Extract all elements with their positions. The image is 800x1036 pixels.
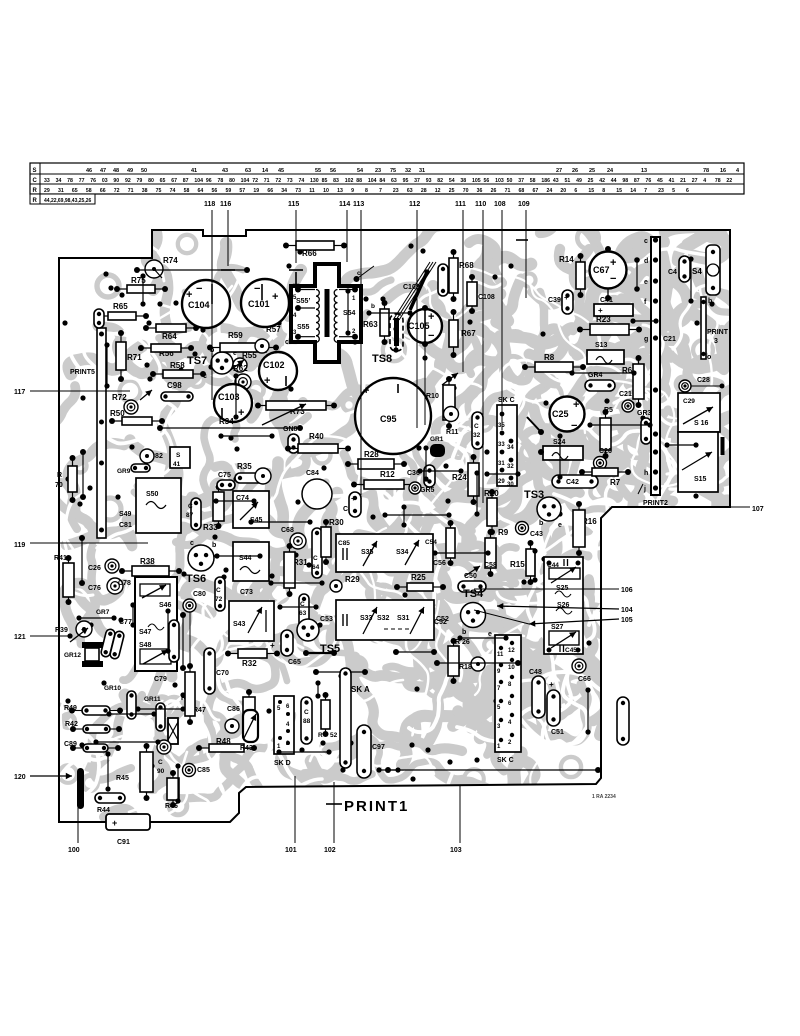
svg-text:R62: R62 <box>233 364 248 373</box>
svg-text:41: 41 <box>669 178 675 184</box>
svg-text:c: c <box>357 270 361 277</box>
svg-text:S24: S24 <box>553 439 566 446</box>
svg-text:72: 72 <box>252 178 258 184</box>
svg-text:R68: R68 <box>459 261 474 270</box>
svg-text:7: 7 <box>644 188 647 194</box>
svg-text:R8: R8 <box>544 353 555 362</box>
svg-text:R41: R41 <box>54 555 67 562</box>
svg-text:R6: R6 <box>622 366 633 375</box>
svg-text:C43: C43 <box>530 531 543 538</box>
svg-text:C73: C73 <box>240 589 253 596</box>
svg-text:R71: R71 <box>127 353 142 362</box>
svg-text:45: 45 <box>657 178 663 184</box>
svg-text:R28: R28 <box>364 450 379 459</box>
svg-text:+: + <box>610 257 616 269</box>
svg-text:59: 59 <box>225 188 231 194</box>
svg-text:37: 37 <box>518 178 524 184</box>
svg-text:PRINT: PRINT <box>707 329 729 336</box>
svg-text:C41: C41 <box>600 297 613 304</box>
svg-text:103: 103 <box>495 178 504 184</box>
svg-text:C26: C26 <box>599 448 612 455</box>
svg-text:R30: R30 <box>329 518 344 527</box>
svg-text:54: 54 <box>357 168 364 174</box>
svg-text:S47: S47 <box>139 629 152 636</box>
svg-text:C39: C39 <box>548 297 561 304</box>
svg-text:90: 90 <box>157 768 165 775</box>
svg-text:37: 37 <box>414 178 420 184</box>
svg-text:R72: R72 <box>112 393 127 402</box>
svg-text:31: 31 <box>58 188 64 194</box>
svg-text:C86: C86 <box>227 706 240 713</box>
svg-text:23: 23 <box>375 168 381 174</box>
svg-text:33: 33 <box>44 178 50 184</box>
svg-text:C54: C54 <box>425 539 437 546</box>
svg-text:C28: C28 <box>697 377 710 384</box>
svg-text:63: 63 <box>407 188 413 194</box>
svg-text:S13: S13 <box>595 342 608 349</box>
svg-text:10: 10 <box>323 188 329 194</box>
svg-text:SK C: SK C <box>498 397 515 404</box>
svg-text:C66: C66 <box>578 676 591 683</box>
svg-text:80: 80 <box>229 178 235 184</box>
svg-text:34: 34 <box>281 188 287 194</box>
svg-text:C: C <box>474 423 479 430</box>
svg-text:102: 102 <box>345 178 354 184</box>
svg-text:108: 108 <box>494 201 506 208</box>
svg-text:30: 30 <box>507 482 514 488</box>
svg-text:c: c <box>190 540 194 547</box>
svg-text:S32: S32 <box>377 615 390 622</box>
svg-text:76: 76 <box>645 178 651 184</box>
svg-text:71: 71 <box>264 178 270 184</box>
svg-text:58: 58 <box>530 178 536 184</box>
svg-text:38: 38 <box>460 178 466 184</box>
svg-text:S4: S4 <box>692 267 702 276</box>
svg-text:C70: C70 <box>216 670 229 677</box>
svg-text:115: 115 <box>288 201 299 208</box>
svg-text:C58: C58 <box>484 562 497 569</box>
svg-text:73: 73 <box>295 188 301 194</box>
svg-text:78: 78 <box>715 178 721 184</box>
svg-text:14: 14 <box>630 188 636 194</box>
svg-text:76: 76 <box>90 178 96 184</box>
svg-text:49: 49 <box>127 168 133 174</box>
svg-text:S55’: S55’ <box>296 298 310 305</box>
svg-text:87: 87 <box>186 512 194 519</box>
svg-text:104: 104 <box>621 607 633 614</box>
svg-text:105: 105 <box>621 617 633 624</box>
svg-text:32: 32 <box>473 432 481 439</box>
svg-text:GN8: GN8 <box>283 426 298 433</box>
svg-text:78: 78 <box>703 168 709 174</box>
svg-text:28: 28 <box>421 188 427 194</box>
svg-text:C: C <box>188 503 193 510</box>
svg-text:66: 66 <box>267 188 273 194</box>
svg-text:77: 77 <box>79 178 85 184</box>
svg-text:73: 73 <box>287 178 293 184</box>
svg-text:104: 104 <box>368 178 377 184</box>
svg-text:106: 106 <box>621 587 633 594</box>
svg-text:TS6: TS6 <box>186 573 206 585</box>
svg-text:C56: C56 <box>433 560 446 567</box>
svg-text:48: 48 <box>113 168 119 174</box>
svg-text:85: 85 <box>322 178 328 184</box>
svg-text:34: 34 <box>507 445 514 451</box>
svg-text:+: + <box>112 818 117 828</box>
svg-text:e: e <box>644 279 648 286</box>
svg-text:R: R <box>33 188 38 194</box>
svg-text:SK D: SK D <box>274 760 291 767</box>
svg-text:S43: S43 <box>233 621 246 628</box>
svg-text:70: 70 <box>55 482 63 489</box>
svg-text:R: R <box>33 198 38 204</box>
svg-text:80: 80 <box>148 178 154 184</box>
svg-text:5: 5 <box>672 188 675 194</box>
svg-text:S: S <box>176 452 181 459</box>
svg-text:C45: C45 <box>565 647 577 654</box>
svg-text:03: 03 <box>102 178 108 184</box>
svg-text:S54: S54 <box>343 310 356 317</box>
svg-text:−: − <box>428 330 434 342</box>
svg-text:23: 23 <box>393 188 399 194</box>
svg-text:S55: S55 <box>297 324 310 331</box>
svg-text:C67: C67 <box>593 265 610 275</box>
svg-text:74: 74 <box>298 178 304 184</box>
svg-text:C53: C53 <box>320 616 333 623</box>
svg-text:42: 42 <box>599 178 605 184</box>
svg-text:36: 36 <box>477 188 483 194</box>
svg-text:26: 26 <box>491 188 497 194</box>
svg-text:9: 9 <box>351 188 354 194</box>
svg-text:+: + <box>428 311 434 323</box>
svg-text:87: 87 <box>183 178 189 184</box>
svg-text:116: 116 <box>220 201 231 208</box>
svg-text:14: 14 <box>262 168 269 174</box>
svg-text:C97: C97 <box>372 744 385 751</box>
svg-text:11: 11 <box>497 652 504 658</box>
svg-text:b: b <box>708 298 712 305</box>
svg-text:87: 87 <box>634 178 640 184</box>
svg-text:24: 24 <box>546 188 552 194</box>
svg-text:C42: C42 <box>566 479 579 486</box>
svg-text:109: 109 <box>518 201 530 208</box>
svg-text:27: 27 <box>556 168 562 174</box>
svg-text:C105: C105 <box>408 321 430 331</box>
svg-text:+: + <box>573 399 579 411</box>
svg-text:31: 31 <box>498 461 505 467</box>
svg-text:S50: S50 <box>146 491 159 498</box>
svg-text:R34: R34 <box>219 417 234 426</box>
svg-text:7: 7 <box>379 188 382 194</box>
svg-text:31: 31 <box>419 168 425 174</box>
svg-text:83: 83 <box>333 178 339 184</box>
svg-text:44: 44 <box>611 178 617 184</box>
svg-text:R24: R24 <box>452 473 467 482</box>
svg-text:119: 119 <box>14 542 25 549</box>
svg-text:90: 90 <box>113 178 119 184</box>
svg-text:44,22,69,98,43,25,26: 44,22,69,98,43,25,26 <box>44 198 91 204</box>
svg-text:SK C: SK C <box>497 757 514 764</box>
svg-text:b: b <box>371 303 375 310</box>
svg-text:50: 50 <box>507 178 513 184</box>
svg-text:15: 15 <box>588 188 594 194</box>
svg-text:GR10: GR10 <box>104 685 121 692</box>
svg-text:C65: C65 <box>288 659 301 666</box>
svg-text:R: R <box>57 472 62 479</box>
svg-text:−: − <box>610 273 616 285</box>
svg-text:71: 71 <box>128 188 134 194</box>
svg-text:C80: C80 <box>193 591 206 598</box>
svg-text:74: 74 <box>170 188 176 194</box>
svg-text:+: + <box>351 494 356 503</box>
svg-text:C52: C52 <box>434 619 447 626</box>
svg-text:+: + <box>272 291 278 303</box>
svg-text:+: + <box>564 293 569 302</box>
svg-text:41: 41 <box>191 168 197 174</box>
svg-text:25: 25 <box>588 178 594 184</box>
svg-text:R 26: R 26 <box>455 639 470 646</box>
svg-text:R25: R25 <box>411 573 426 582</box>
svg-text:98: 98 <box>622 178 628 184</box>
svg-text:8: 8 <box>602 188 605 194</box>
svg-text:o: o <box>707 354 711 361</box>
svg-text:55: 55 <box>315 168 321 174</box>
svg-text:92: 92 <box>125 178 131 184</box>
svg-text:GR12: GR12 <box>64 652 81 659</box>
svg-text:+: + <box>598 306 603 315</box>
svg-text:R23: R23 <box>596 315 611 324</box>
svg-text:S34: S34 <box>396 549 409 556</box>
svg-text:C91: C91 <box>117 839 130 846</box>
svg-text:GR3: GR3 <box>637 410 652 417</box>
svg-text:e: e <box>558 522 562 529</box>
svg-text:46: 46 <box>86 168 92 174</box>
svg-text:65: 65 <box>72 188 78 194</box>
svg-text:15: 15 <box>616 188 622 194</box>
svg-text:+: + <box>549 680 554 689</box>
svg-text:64: 64 <box>198 188 204 194</box>
svg-text:25: 25 <box>589 168 595 174</box>
svg-text:50: 50 <box>141 168 147 174</box>
svg-text:112: 112 <box>409 201 420 208</box>
svg-text:93: 93 <box>426 178 432 184</box>
svg-text:64: 64 <box>312 564 320 571</box>
svg-text:72: 72 <box>114 188 120 194</box>
svg-text:12: 12 <box>435 188 441 194</box>
svg-text:114: 114 <box>339 201 350 208</box>
svg-text:32: 32 <box>507 464 514 470</box>
svg-text:52: 52 <box>330 732 338 739</box>
svg-text:58: 58 <box>86 188 92 194</box>
svg-text:S15: S15 <box>694 476 707 483</box>
svg-text:C108: C108 <box>478 294 495 301</box>
svg-text:32: 32 <box>405 168 411 174</box>
svg-text:19: 19 <box>253 188 259 194</box>
svg-text:PRINT5: PRINT5 <box>70 369 95 376</box>
svg-text:54: 54 <box>449 178 455 184</box>
svg-text:R40: R40 <box>309 432 324 441</box>
svg-text:41: 41 <box>173 461 181 468</box>
svg-text:6: 6 <box>686 188 689 194</box>
svg-text:66: 66 <box>100 188 106 194</box>
svg-text:63: 63 <box>299 610 307 617</box>
svg-text:b: b <box>539 520 543 527</box>
svg-text:23: 23 <box>658 188 664 194</box>
svg-text:C77: C77 <box>119 619 132 626</box>
svg-text:C50: C50 <box>464 573 477 580</box>
svg-text:C95: C95 <box>380 414 397 424</box>
svg-text:26: 26 <box>572 168 578 174</box>
svg-text:21: 21 <box>680 178 686 184</box>
svg-text:GR1: GR1 <box>430 436 444 443</box>
svg-text:j: j <box>643 486 646 493</box>
svg-text:R35: R35 <box>237 462 252 471</box>
svg-text:R59: R59 <box>228 331 243 340</box>
svg-text:3: 3 <box>714 338 718 345</box>
svg-text:C25: C25 <box>552 409 569 419</box>
svg-text:TS8: TS8 <box>372 353 392 365</box>
svg-text:72: 72 <box>275 178 281 184</box>
svg-text:33: 33 <box>498 442 505 448</box>
svg-text:75: 75 <box>390 168 396 174</box>
svg-text:117: 117 <box>14 389 25 396</box>
svg-text:+: + <box>363 385 369 397</box>
svg-text:S27: S27 <box>551 624 564 631</box>
svg-text:75: 75 <box>156 188 162 194</box>
svg-text:C101: C101 <box>248 299 270 309</box>
svg-text:56: 56 <box>484 178 490 184</box>
svg-text:R10: R10 <box>426 393 439 400</box>
svg-text:TS4: TS4 <box>463 588 484 600</box>
svg-text:13: 13 <box>337 188 343 194</box>
svg-text:88: 88 <box>356 178 362 184</box>
svg-text:96: 96 <box>206 178 212 184</box>
svg-text:38: 38 <box>142 188 148 194</box>
svg-text:C78: C78 <box>118 580 131 587</box>
svg-text:67: 67 <box>533 188 539 194</box>
svg-text:e: e <box>488 631 492 638</box>
svg-text:78: 78 <box>218 178 224 184</box>
svg-text:78: 78 <box>67 178 73 184</box>
svg-text:C29: C29 <box>683 398 695 405</box>
svg-text:C: C <box>33 178 38 184</box>
svg-text:R64: R64 <box>162 332 177 341</box>
svg-text:TS7: TS7 <box>187 355 207 367</box>
svg-text:79: 79 <box>137 178 143 184</box>
svg-text:118: 118 <box>204 201 215 208</box>
svg-text:+: + <box>264 375 270 387</box>
svg-text:111: 111 <box>455 201 466 208</box>
svg-text:C102: C102 <box>263 360 285 370</box>
svg-text:13: 13 <box>641 168 647 174</box>
svg-text:C81: C81 <box>119 522 132 529</box>
svg-text:22: 22 <box>726 178 732 184</box>
svg-text:103: 103 <box>450 847 462 854</box>
svg-text:11: 11 <box>309 188 315 194</box>
svg-text:R45: R45 <box>116 775 129 782</box>
svg-text:43: 43 <box>222 168 228 174</box>
svg-text:S31: S31 <box>397 615 410 622</box>
svg-text:130: 130 <box>310 178 319 184</box>
svg-text:c: c <box>285 339 289 346</box>
svg-text:R18: R18 <box>459 664 472 671</box>
svg-text:S46: S46 <box>159 602 172 609</box>
svg-text:84: 84 <box>379 178 385 184</box>
svg-text:R39: R39 <box>55 627 68 634</box>
svg-text:R38: R38 <box>140 557 155 566</box>
svg-text:S49: S49 <box>119 511 132 518</box>
svg-text:GR7: GR7 <box>96 609 110 616</box>
svg-text:S: S <box>33 168 37 174</box>
svg-text:GR5: GR5 <box>420 487 435 494</box>
svg-text:49: 49 <box>576 178 582 184</box>
svg-text:100: 100 <box>68 847 80 854</box>
svg-text:104: 104 <box>194 178 203 184</box>
svg-text:R29: R29 <box>345 575 360 584</box>
svg-text:101: 101 <box>285 847 297 854</box>
svg-text:20: 20 <box>560 188 566 194</box>
svg-text:C76: C76 <box>88 585 101 592</box>
svg-text:R74: R74 <box>163 256 178 265</box>
svg-text:C84: C84 <box>306 470 319 477</box>
svg-text:C85: C85 <box>338 540 350 547</box>
svg-text:71: 71 <box>505 188 511 194</box>
svg-text:R14: R14 <box>559 255 574 264</box>
svg-text:−: − <box>254 283 260 295</box>
svg-text:R11: R11 <box>446 429 459 436</box>
svg-text:c: c <box>644 238 648 245</box>
svg-text:34: 34 <box>56 178 62 184</box>
svg-text:102: 102 <box>324 847 336 854</box>
svg-text:10: 10 <box>508 665 515 671</box>
svg-text:68: 68 <box>519 188 525 194</box>
svg-text:95: 95 <box>403 178 409 184</box>
svg-text:58: 58 <box>184 188 190 194</box>
svg-text:b: b <box>462 629 466 636</box>
svg-text:R32: R32 <box>242 659 257 668</box>
svg-text:65: 65 <box>160 178 166 184</box>
svg-text:6: 6 <box>574 188 577 194</box>
svg-text:24: 24 <box>607 168 614 174</box>
svg-text:12: 12 <box>508 648 515 654</box>
svg-text:1 RA 2234: 1 RA 2234 <box>592 794 616 800</box>
svg-text:25: 25 <box>449 188 455 194</box>
svg-text:70: 70 <box>463 188 469 194</box>
svg-text:8: 8 <box>365 188 368 194</box>
svg-text:82: 82 <box>437 178 443 184</box>
svg-text:C48: C48 <box>529 669 542 676</box>
svg-text:C4: C4 <box>668 269 677 276</box>
svg-text:C79: C79 <box>154 676 167 683</box>
svg-text:113: 113 <box>353 201 364 208</box>
svg-text:16: 16 <box>720 168 726 174</box>
svg-text:29: 29 <box>44 188 50 194</box>
svg-text:110: 110 <box>475 201 486 208</box>
svg-text:g: g <box>644 336 648 343</box>
svg-text:C85: C85 <box>197 767 210 774</box>
svg-text:56: 56 <box>330 168 336 174</box>
svg-text:72: 72 <box>215 596 223 603</box>
svg-text:GR9: GR9 <box>117 468 131 475</box>
svg-text:R63: R63 <box>363 320 378 329</box>
svg-text:63: 63 <box>245 168 251 174</box>
svg-text:C: C <box>158 759 163 766</box>
svg-text:b: b <box>212 542 216 549</box>
svg-text:S48: S48 <box>139 642 152 649</box>
svg-text:d: d <box>644 258 648 265</box>
svg-text:R9: R9 <box>498 528 509 537</box>
svg-text:C: C <box>304 709 309 716</box>
